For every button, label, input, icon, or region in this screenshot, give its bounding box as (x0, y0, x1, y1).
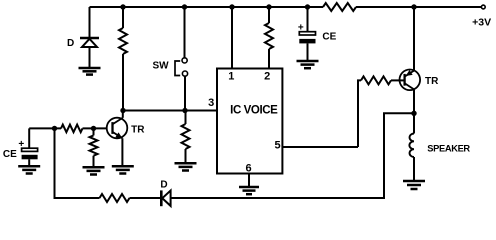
junction base wire/R7 (91, 126, 96, 131)
junction rail/TR2 (411, 4, 416, 9)
wire speaker to ground (413, 157, 415, 181)
wire bottom loop left (55, 197, 100, 199)
+3V supply terminal (481, 5, 485, 9)
resistor R4 (TR1 base) (61, 125, 83, 133)
wire R8 to D2 (130, 197, 161, 199)
diode D2 (bottom) (161, 190, 170, 206)
transistor TR1 (NPN, left) (107, 118, 128, 139)
speaker coil (409, 134, 414, 158)
ground under speaker (403, 181, 425, 189)
TR1 emitter arrow (NPN) (115, 132, 122, 138)
resistor R1 (119, 28, 127, 54)
junction TR2 collector/speaker/feedback (411, 111, 416, 116)
ground under CE1 (18, 166, 40, 173)
svg-text:+: + (298, 22, 304, 33)
svg-text:1: 1 (228, 70, 234, 82)
wire rail to IC pin 1 (231, 7, 233, 69)
wire CE1 node left section (29, 127, 61, 129)
wire R4 to TR1 base (83, 127, 113, 129)
wire IC pin 5 to riser (282, 146, 358, 148)
ground under TR1 (112, 166, 134, 173)
wire base node to CE1 (28, 128, 30, 147)
wire junction down to bottom loop (54, 128, 56, 199)
wire R3 to ground (185, 149, 187, 163)
ground under R7 (83, 167, 105, 174)
wire R6 to TR2 base (391, 79, 405, 81)
ground under CE2 (297, 61, 319, 68)
ground under R3 (175, 163, 197, 170)
transistor TR2 (PNP, right) (400, 70, 421, 91)
junction base wire/bottom loop (52, 126, 57, 131)
svg-text:+3V: +3V (472, 17, 491, 29)
resistor R2 (265, 23, 273, 49)
wire junction to R7 (93, 128, 95, 135)
wire R7 to ground (93, 156, 95, 168)
ground under D1 (79, 68, 101, 75)
junction rail/SW (182, 4, 187, 9)
svg-text:D: D (160, 180, 167, 191)
wire rail to CE2 (307, 7, 309, 31)
wire rail to R1 (122, 7, 124, 28)
svg-text:SW: SW (152, 61, 169, 72)
wire R2 to IC pin 2 (268, 49, 270, 69)
svg-text:3: 3 (208, 97, 214, 109)
svg-text:SPEAKER: SPEAKER (427, 143, 470, 153)
diode D1 (top left) (80, 38, 99, 47)
svg-text:5: 5 (275, 139, 281, 151)
wire top supply rail right section (356, 6, 481, 8)
svg-text:+: + (18, 139, 24, 150)
resistor R8 (bottom) (100, 194, 130, 202)
svg-text:TR: TR (425, 76, 439, 87)
wire feedback branch down (384, 113, 414, 199)
wire junction to speaker (413, 113, 415, 133)
wire bottom loop right (171, 197, 384, 199)
TR2 emitter arrow (points to base) (406, 70, 413, 76)
wire top supply rail left section (90, 6, 324, 8)
wire TR2 collector down (413, 90, 415, 114)
capacitor CE1 (left electrolytic) (22, 148, 38, 159)
IC U1 IC VOICE body (217, 69, 282, 174)
resistor R7 (90, 135, 98, 155)
resistor R5 on supply rail (323, 3, 356, 11)
wire rail to SW (184, 7, 186, 58)
svg-text:2: 2 (264, 70, 270, 82)
wire D1 anode to ground (89, 47, 91, 68)
junction rail/R2 (266, 4, 271, 9)
wire CE1 to ground (28, 159, 30, 166)
wire TR1 emitter to ground (121, 138, 123, 166)
svg-text:TR: TR (131, 124, 145, 135)
wire CE2 to ground (307, 43, 309, 61)
wire node to R3 (185, 111, 187, 125)
capacitor CE2 (top electrolytic) (299, 32, 315, 44)
wire rail to TR2 emitter (413, 7, 415, 70)
wire rail to R2 (268, 7, 270, 23)
resistor R3 (182, 124, 190, 149)
wire IC pin 6 to ground (248, 174, 250, 187)
svg-text:6: 6 (246, 163, 252, 175)
junction rail/CE2 (305, 4, 310, 9)
junction pin3-wire/TR1 collector (120, 108, 125, 113)
svg-text:IC VOICE: IC VOICE (230, 105, 278, 117)
wire R1 to pin3 node (122, 54, 124, 111)
pushbutton switch SW (175, 58, 188, 76)
svg-text:CE: CE (322, 31, 336, 42)
junction rail/pin1 (229, 4, 234, 9)
svg-text:D: D (67, 38, 74, 49)
wire TR1 collector to pin3 node (122, 111, 124, 118)
wire node to IC pin 3 (123, 110, 217, 112)
wire rail to D1 cathode (89, 7, 91, 38)
wire pin5 riser to R6 (358, 80, 361, 147)
wire SW to pin3 node (184, 76, 186, 110)
resistor R6 (TR2 base) (361, 76, 391, 84)
svg-text:CE: CE (3, 149, 17, 160)
ground under pin 6 (239, 187, 259, 194)
junction rail/R1 (120, 4, 125, 9)
junction pin3-wire/R3 (182, 108, 187, 113)
